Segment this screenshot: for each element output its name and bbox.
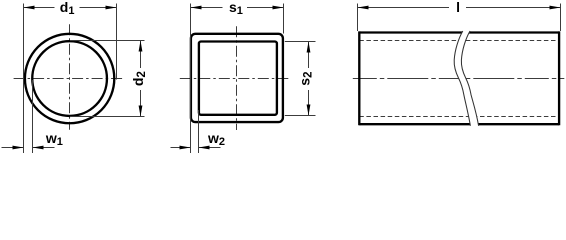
dimension line w1 [2,147,24,149]
dimension line s1 [191,7,223,9]
arrow d1 left [24,6,35,10]
break line left [454,31,470,126]
extension line d2 top [70,40,145,42]
extension line w2 right [198,110,200,153]
hidden bore line top [359,40,559,42]
extension line s2 top [285,41,316,43]
extension line s1 right [283,4,285,34]
outer square [191,34,283,122]
extension line l left [357,4,359,32]
extension line d2 bottom [70,116,145,118]
tube left end [358,31,360,125]
arrow d2 top [139,41,143,52]
inner square [199,42,277,115]
tube right end [558,31,560,125]
extension line s2 bottom [285,115,316,117]
vertical centerline [69,24,71,129]
dimension line l [358,7,450,9]
arrow s2 top [307,42,311,53]
horizontal centerline [180,78,290,80]
break white band [454,31,478,126]
tube top edge [359,31,559,33]
arrow s2 bottom [307,105,311,116]
extension line s1 left / w2 left [190,4,192,154]
dimension line w2 [171,147,191,149]
hidden bore line bottom [359,116,559,118]
centerline [353,78,565,80]
arrow s1 left [191,6,202,10]
dimension line d1 [24,7,55,9]
outer circle [25,34,114,123]
dimension line s2 [308,42,310,69]
arrow w2 (points left) [199,146,210,150]
inner circle [32,41,107,116]
arrow d1 right [106,6,117,10]
break line right [461,31,478,126]
horizontal centerline [14,78,125,80]
arrow s1 right [273,6,284,10]
arrow l right [550,6,561,10]
extension line d1 right [116,4,118,80]
dimension line d2 [140,41,142,69]
arrow w2 (points right) [180,146,191,150]
arrow l left [358,6,369,10]
extension line d1 left / w1 left [23,4,25,154]
arrow w1 (points left) [33,146,44,150]
vertical centerline [236,26,238,130]
tube bottom edge [359,123,559,125]
extension line l right [560,4,562,32]
arrow w1 (points right) [13,146,24,150]
svg-text:l: l [456,0,460,15]
arrow d2 bottom [139,106,143,117]
extension line w1 right [32,80,34,153]
